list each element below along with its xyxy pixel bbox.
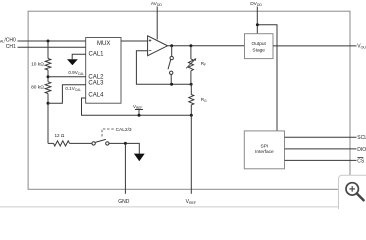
junction op-amp out xyxy=(170,44,173,47)
wire AVDD down to op-amp xyxy=(156,7,158,40)
svg-text:Interface: Interface xyxy=(255,149,274,155)
wire 0.9VCAL to CAL2 xyxy=(48,76,86,78)
magnifier overlay box xyxy=(339,175,366,221)
ground arrow after switch xyxy=(134,154,145,162)
svg-text:AVDD: AVDD xyxy=(151,1,163,7)
junction 0.9V tap xyxy=(47,75,50,78)
wire DVDD down to Output Stage xyxy=(256,7,258,34)
svg-text:0.1VCAL: 0.1VCAL xyxy=(65,86,81,92)
junction GND branch xyxy=(124,142,127,145)
svg-text:80 kΩ: 80 kΩ xyxy=(31,85,44,91)
wire switch to ground arrow xyxy=(109,143,139,153)
resistor RF variable xyxy=(190,46,192,59)
svg-text:CH1: CH1 xyxy=(6,44,16,50)
outer block diagram border xyxy=(28,11,350,189)
svg-text:Output: Output xyxy=(251,41,266,47)
wire SCL xyxy=(285,136,357,138)
svg-text:RG: RG xyxy=(201,97,207,103)
junction RF top xyxy=(189,44,192,47)
node DVDD label xyxy=(250,1,262,7)
svg-text:VREF: VREF xyxy=(186,199,197,205)
wire feedback loop xyxy=(136,51,191,84)
op-amp A1 xyxy=(148,36,168,56)
junction divider top tap xyxy=(47,40,50,43)
bottom page border line xyxy=(0,206,366,208)
wire DVDD branch to SPI interface xyxy=(257,25,277,131)
resistor 80k xyxy=(45,82,51,94)
mux U1 box xyxy=(86,38,121,104)
resistor 12 ohm xyxy=(54,141,70,146)
svg-text:DIO: DIO xyxy=(357,147,366,153)
svg-text:Stage: Stage xyxy=(252,48,265,54)
svg-text:RF: RF xyxy=(201,61,206,67)
resistor 10k xyxy=(45,59,51,71)
wire GND pin xyxy=(124,143,126,193)
wire CH0 input to MUX xyxy=(18,40,86,42)
output stage U2 box xyxy=(245,34,274,59)
svg-text:10 kΩ: 10 kΩ xyxy=(31,61,44,67)
svg-text:SPI: SPI xyxy=(261,144,269,150)
svg-text:CS: CS xyxy=(357,158,365,164)
junction RG bottom xyxy=(190,114,193,117)
svg-text:VOUT: VOUT xyxy=(357,44,366,50)
svg-text:SCL: SCL xyxy=(357,135,366,141)
switch CAL2/3 xyxy=(92,142,95,145)
wire 10k to 80k xyxy=(47,70,49,82)
wire 80k lower lead xyxy=(47,94,49,144)
svg-text:0.9VCAL: 0.9VCAL xyxy=(68,70,84,76)
svg-text:VCAL/CH0: VCAL/CH0 xyxy=(0,38,16,44)
svg-text:DVDD: DVDD xyxy=(250,1,262,7)
wire DIO xyxy=(285,148,357,150)
switch buffer bypass xyxy=(171,46,173,57)
wire CAL1 to ground arrow xyxy=(72,54,86,59)
svg-text:CAL4: CAL4 xyxy=(88,93,104,99)
svg-text:CAL2/3: CAL2/3 xyxy=(116,127,132,133)
svg-text:GND: GND xyxy=(118,199,130,205)
resistor RG xyxy=(190,84,192,94)
svg-text:MUX: MUX xyxy=(97,41,110,47)
svg-text:CAL1: CAL1 xyxy=(89,52,105,58)
wire MUX out to op-amp xyxy=(121,40,148,42)
wire CAL4 to VREF rail xyxy=(82,98,192,115)
junction VREF tap xyxy=(138,114,141,117)
node AVDD label xyxy=(151,1,163,7)
wire CS xyxy=(285,159,357,161)
junction DVDD branch xyxy=(256,23,259,26)
svg-text:CAL3: CAL3 xyxy=(88,81,104,87)
wire CH1 input to MUX xyxy=(18,46,86,48)
wire to 12ohm xyxy=(48,142,54,144)
junction rail RF bottom xyxy=(190,83,193,86)
junction switch to rail xyxy=(170,83,173,86)
wire 12ohm to switch xyxy=(70,142,92,144)
svg-text:VREF: VREF xyxy=(133,104,142,110)
svg-text:12 Ω: 12 Ω xyxy=(55,133,65,138)
svg-text:CAL2: CAL2 xyxy=(88,74,104,80)
dashed leader CAL2/3 xyxy=(102,129,115,137)
ground arrow at CAL1 xyxy=(67,59,78,65)
junction 0.1V tap xyxy=(47,102,50,105)
wire op-amp output xyxy=(168,45,245,47)
wire 0.1VCAL to CAL3 xyxy=(48,85,86,104)
wire divider upper lead xyxy=(47,41,49,59)
magnifier icon xyxy=(346,183,358,195)
wire VOUT xyxy=(273,45,357,47)
wire VREF pin xyxy=(190,115,192,194)
SPI interface U3 box xyxy=(244,131,284,169)
